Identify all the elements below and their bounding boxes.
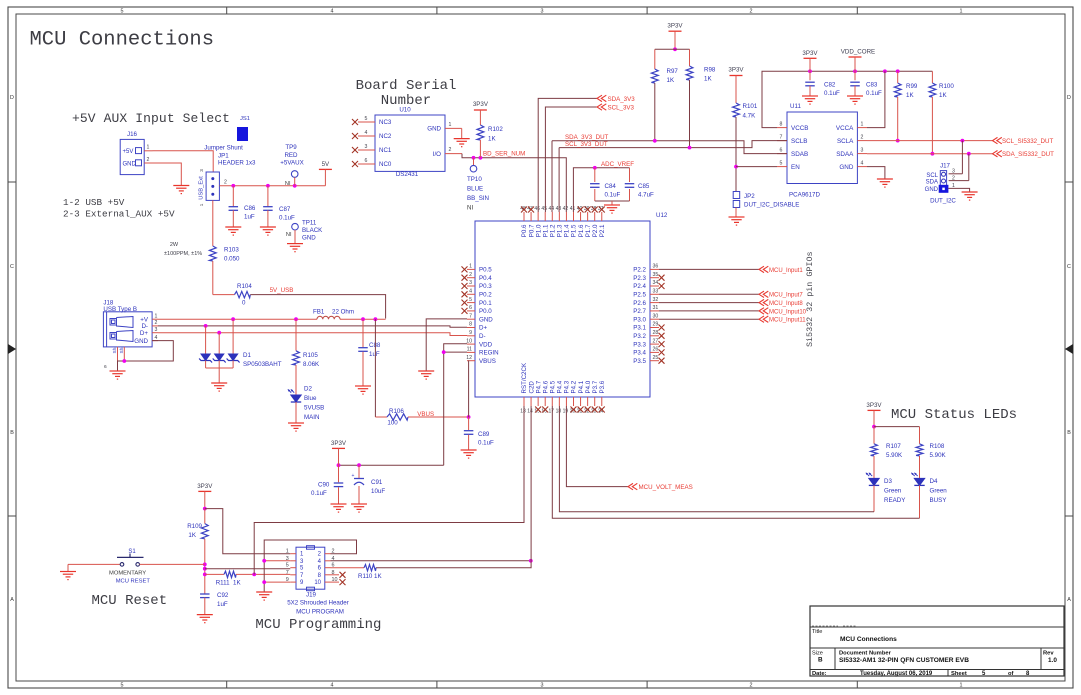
svg-text:100: 100 bbox=[387, 420, 398, 427]
svg-text:RED: RED bbox=[284, 152, 298, 159]
svg-text:P2.4: P2.4 bbox=[633, 283, 646, 290]
svg-text:Board Serial: Board Serial bbox=[356, 78, 457, 94]
svg-text:P0.2: P0.2 bbox=[479, 292, 492, 299]
svg-text:0.1uF: 0.1uF bbox=[824, 90, 840, 97]
svg-text:1uF: 1uF bbox=[217, 601, 228, 608]
svg-text:P4.7: P4.7 bbox=[535, 380, 542, 393]
svg-text:3: 3 bbox=[469, 280, 472, 286]
svg-text:SDAB: SDAB bbox=[791, 151, 808, 158]
svg-text:+5VAUX: +5VAUX bbox=[280, 160, 303, 167]
svg-text:1: 1 bbox=[199, 203, 204, 206]
svg-text:3: 3 bbox=[199, 169, 204, 172]
svg-text:3: 3 bbox=[861, 148, 864, 154]
svg-text:13: 13 bbox=[520, 409, 526, 415]
svg-text:1.0: 1.0 bbox=[1048, 657, 1057, 664]
svg-text:VDD_CORE: VDD_CORE bbox=[841, 49, 875, 56]
svg-text:C2D: C2D bbox=[528, 381, 535, 394]
svg-text:JS1: JS1 bbox=[240, 116, 250, 122]
svg-text:R100: R100 bbox=[939, 83, 954, 90]
svg-text:7: 7 bbox=[469, 313, 472, 319]
svg-text:C86: C86 bbox=[244, 205, 256, 212]
svg-text:SCLA: SCLA bbox=[837, 138, 854, 145]
svg-text:9: 9 bbox=[469, 330, 472, 336]
svg-text:5: 5 bbox=[469, 297, 472, 303]
svg-text:1: 1 bbox=[286, 549, 289, 555]
svg-text:32: 32 bbox=[653, 297, 659, 303]
svg-text:P1.0: P1.0 bbox=[535, 224, 542, 237]
svg-text:SCL_3V3: SCL_3V3 bbox=[608, 105, 635, 112]
svg-text:P1.1: P1.1 bbox=[542, 224, 549, 237]
svg-text:SCL_3V3_DUT: SCL_3V3_DUT bbox=[565, 141, 608, 148]
svg-text:4: 4 bbox=[365, 130, 368, 136]
svg-text:2: 2 bbox=[449, 147, 452, 153]
svg-text:0.1uF: 0.1uF bbox=[866, 90, 882, 97]
svg-text:BD_SER_NUM: BD_SER_NUM bbox=[483, 150, 525, 157]
svg-text:B: B bbox=[1067, 430, 1071, 436]
svg-text:Rev: Rev bbox=[1043, 651, 1054, 657]
svg-text:24: 24 bbox=[598, 409, 604, 415]
svg-text:Jumper Shunt: Jumper Shunt bbox=[204, 145, 243, 152]
svg-text:1K: 1K bbox=[906, 92, 914, 99]
svg-text:46: 46 bbox=[534, 206, 540, 212]
svg-text:1-2 USB +5V: 1-2 USB +5V bbox=[63, 197, 125, 208]
svg-text:Document Number: Document Number bbox=[839, 651, 892, 657]
svg-text:35: 35 bbox=[653, 272, 659, 278]
svg-text:Si5332 32 pin GPIOs: Si5332 32 pin GPIOs bbox=[805, 252, 815, 348]
svg-text:6: 6 bbox=[365, 158, 368, 164]
svg-text:TP9: TP9 bbox=[285, 144, 297, 151]
svg-text:J16: J16 bbox=[127, 131, 138, 138]
svg-text:R104: R104 bbox=[237, 283, 252, 290]
svg-text:FB1: FB1 bbox=[313, 309, 325, 316]
svg-text:3P3V: 3P3V bbox=[728, 67, 744, 74]
svg-text:Green: Green bbox=[930, 488, 948, 495]
svg-text:C83: C83 bbox=[866, 82, 878, 89]
svg-text:NI: NI bbox=[285, 181, 291, 187]
svg-text:NC2: NC2 bbox=[379, 133, 392, 140]
svg-text:MCU Connections: MCU Connections bbox=[840, 636, 897, 643]
svg-text:TP11: TP11 bbox=[302, 220, 317, 227]
svg-text:2W: 2W bbox=[170, 242, 179, 248]
svg-text:SCLB: SCLB bbox=[791, 138, 807, 145]
svg-text:3P3V: 3P3V bbox=[331, 440, 347, 447]
svg-text:1: 1 bbox=[960, 9, 963, 15]
svg-text:7: 7 bbox=[286, 570, 289, 576]
svg-text:5.90K: 5.90K bbox=[886, 452, 903, 459]
svg-text:42: 42 bbox=[563, 206, 569, 212]
svg-text:+5V AUX Input Select: +5V AUX Input Select bbox=[72, 111, 230, 126]
svg-text:C: C bbox=[10, 264, 14, 270]
svg-text:D2: D2 bbox=[304, 386, 312, 393]
svg-text:D1: D1 bbox=[243, 352, 251, 359]
svg-text:BUSY: BUSY bbox=[930, 497, 947, 504]
svg-text:45: 45 bbox=[541, 206, 547, 212]
svg-text:0.1uF: 0.1uF bbox=[279, 215, 295, 222]
svg-text:of: of bbox=[1008, 671, 1014, 677]
svg-text:VCCA: VCCA bbox=[836, 125, 854, 132]
svg-text:5: 5 bbox=[121, 682, 124, 688]
svg-text:P2.1: P2.1 bbox=[599, 224, 606, 237]
svg-text:USB Type B: USB Type B bbox=[103, 306, 137, 313]
svg-text:SP0503BAHT: SP0503BAHT bbox=[243, 361, 282, 368]
svg-text:4.7K: 4.7K bbox=[743, 113, 757, 120]
svg-text:ADC_VREF: ADC_VREF bbox=[601, 161, 634, 168]
svg-text:NI: NI bbox=[467, 205, 473, 212]
svg-text:Green: Green bbox=[884, 488, 902, 495]
svg-text:GND: GND bbox=[479, 316, 493, 323]
svg-text:0.1uF: 0.1uF bbox=[605, 192, 621, 199]
svg-text:3P3V: 3P3V bbox=[802, 50, 818, 57]
svg-text:3: 3 bbox=[365, 144, 368, 150]
svg-text:NC1: NC1 bbox=[379, 147, 392, 154]
svg-text:5: 5 bbox=[365, 116, 368, 122]
svg-text:P3.3: P3.3 bbox=[633, 341, 646, 348]
svg-text:P2.3: P2.3 bbox=[633, 275, 646, 282]
svg-text:0.050: 0.050 bbox=[224, 256, 240, 263]
svg-text:SI5332-AM1 32-PIN QFN CUSTOMER: SI5332-AM1 32-PIN QFN CUSTOMER EVB bbox=[839, 657, 969, 664]
svg-text:5V: 5V bbox=[322, 161, 330, 168]
svg-text:BLACK: BLACK bbox=[302, 227, 323, 234]
svg-text:+: + bbox=[352, 473, 355, 479]
svg-text:MCU_Input10: MCU_Input10 bbox=[769, 309, 807, 315]
svg-text:33: 33 bbox=[653, 289, 659, 295]
svg-text:23: 23 bbox=[591, 409, 597, 415]
svg-text:1uF: 1uF bbox=[244, 214, 255, 221]
svg-text:Sheet: Sheet bbox=[951, 671, 967, 677]
svg-text:2: 2 bbox=[750, 682, 753, 688]
svg-text:P3.4: P3.4 bbox=[633, 350, 646, 357]
svg-text:PCA9617D: PCA9617D bbox=[789, 192, 820, 199]
svg-text:SCL_SI5332_DUT: SCL_SI5332_DUT bbox=[1002, 138, 1053, 145]
svg-text:2-3 External_AUX +5V: 2-3 External_AUX +5V bbox=[63, 209, 175, 220]
svg-text:0.1uF: 0.1uF bbox=[478, 440, 494, 447]
svg-text:1K: 1K bbox=[667, 77, 675, 84]
svg-text:C85: C85 bbox=[638, 183, 650, 190]
svg-text:MCU Status LEDs: MCU Status LEDs bbox=[891, 407, 1017, 423]
svg-text:1: 1 bbox=[960, 682, 963, 688]
svg-text:P2.6: P2.6 bbox=[633, 300, 646, 307]
svg-text:R106: R106 bbox=[389, 408, 404, 415]
svg-text:5: 5 bbox=[286, 563, 289, 569]
svg-text:P0.1: P0.1 bbox=[479, 300, 492, 307]
svg-text:P1.6: P1.6 bbox=[578, 224, 585, 237]
svg-text:18: 18 bbox=[556, 409, 562, 415]
svg-text:1K: 1K bbox=[704, 76, 712, 83]
svg-text:GND: GND bbox=[427, 126, 441, 133]
svg-text:P0.5: P0.5 bbox=[479, 267, 492, 274]
svg-text:VCCB: VCCB bbox=[791, 125, 809, 132]
svg-text:2: 2 bbox=[224, 180, 227, 186]
svg-text:6: 6 bbox=[469, 305, 472, 311]
svg-text:VBUS: VBUS bbox=[479, 358, 496, 365]
svg-text:2: 2 bbox=[750, 9, 753, 15]
svg-text:MOMENTARY: MOMENTARY bbox=[109, 570, 146, 576]
svg-text:R99: R99 bbox=[906, 83, 918, 90]
svg-text:R105: R105 bbox=[303, 352, 318, 359]
svg-text:30: 30 bbox=[653, 313, 659, 319]
svg-text:R111: R111 bbox=[216, 580, 230, 587]
svg-text:8: 8 bbox=[780, 122, 783, 128]
svg-text:P3.1: P3.1 bbox=[633, 325, 646, 332]
svg-text:BLUE: BLUE bbox=[467, 186, 483, 193]
svg-text:R97: R97 bbox=[667, 68, 679, 75]
svg-text:A: A bbox=[10, 597, 14, 603]
svg-text:R110 1K: R110 1K bbox=[358, 573, 382, 580]
svg-text:C91: C91 bbox=[371, 479, 383, 486]
svg-text:U12: U12 bbox=[656, 212, 668, 219]
svg-text:10uF: 10uF bbox=[371, 488, 385, 495]
svg-text:RST/C2CK: RST/C2CK bbox=[521, 362, 528, 393]
svg-text:5: 5 bbox=[121, 9, 124, 15]
svg-text:DUT_I2C_DISABLE: DUT_I2C_DISABLE bbox=[744, 202, 799, 209]
svg-text:41: 41 bbox=[570, 206, 576, 212]
svg-text:C84: C84 bbox=[605, 183, 617, 190]
svg-text:P3.5: P3.5 bbox=[633, 358, 646, 365]
svg-text:Sh: Sh bbox=[119, 347, 125, 353]
svg-text:5: 5 bbox=[780, 161, 783, 167]
svg-text:D+: D+ bbox=[140, 330, 148, 337]
svg-text:S1: S1 bbox=[128, 549, 136, 555]
svg-text:C89: C89 bbox=[478, 431, 490, 438]
svg-text:P4.6: P4.6 bbox=[542, 380, 549, 393]
svg-text:20: 20 bbox=[570, 409, 576, 415]
svg-text:REGIN: REGIN bbox=[479, 350, 499, 357]
svg-text:A: A bbox=[1067, 597, 1071, 603]
svg-text:1uF: 1uF bbox=[369, 351, 380, 358]
svg-text:SDAA: SDAA bbox=[836, 151, 854, 158]
svg-text:21: 21 bbox=[577, 409, 583, 415]
svg-text:R109: R109 bbox=[187, 523, 202, 530]
svg-text:READY: READY bbox=[884, 497, 905, 504]
svg-text:USB_Ext: USB_Ext bbox=[199, 176, 205, 200]
svg-text:4: 4 bbox=[155, 335, 158, 341]
svg-text:TP10: TP10 bbox=[467, 176, 482, 183]
svg-text:3: 3 bbox=[952, 169, 955, 175]
svg-text:NC0: NC0 bbox=[379, 161, 392, 168]
svg-text:D: D bbox=[10, 95, 14, 101]
svg-text:3: 3 bbox=[541, 682, 544, 688]
svg-text:2: 2 bbox=[861, 135, 864, 141]
svg-text:P0.7: P0.7 bbox=[528, 224, 535, 237]
svg-text:1K: 1K bbox=[233, 580, 241, 587]
svg-text:15: 15 bbox=[534, 409, 540, 415]
svg-text:11: 11 bbox=[467, 347, 472, 353]
svg-text:MCU Reset: MCU Reset bbox=[92, 593, 168, 609]
svg-text:4: 4 bbox=[331, 682, 334, 688]
svg-text:17: 17 bbox=[548, 409, 554, 415]
svg-text:JP1: JP1 bbox=[218, 153, 229, 160]
svg-text:MCU_Input8: MCU_Input8 bbox=[769, 301, 803, 307]
svg-text:NI: NI bbox=[286, 232, 292, 238]
svg-text:P2.2: P2.2 bbox=[633, 267, 646, 274]
svg-text:P4.0: P4.0 bbox=[585, 380, 592, 393]
svg-text:.: . bbox=[966, 657, 968, 664]
svg-text:P2.7: P2.7 bbox=[633, 308, 646, 315]
svg-text:5V_USB: 5V_USB bbox=[270, 287, 294, 294]
svg-text:31: 31 bbox=[653, 305, 659, 311]
svg-text:P0.0: P0.0 bbox=[479, 308, 492, 315]
svg-text:R107: R107 bbox=[886, 443, 901, 450]
svg-text:C87: C87 bbox=[279, 206, 291, 213]
svg-text:14: 14 bbox=[527, 409, 533, 415]
svg-text:4: 4 bbox=[469, 289, 472, 295]
svg-text:5.90K: 5.90K bbox=[930, 452, 947, 459]
svg-text:6: 6 bbox=[780, 148, 783, 154]
svg-text:MCU Programming: MCU Programming bbox=[255, 617, 381, 633]
svg-text:19: 19 bbox=[563, 409, 569, 415]
svg-text:BB_SIN: BB_SIN bbox=[467, 195, 489, 202]
svg-text:22 Ohm: 22 Ohm bbox=[332, 309, 354, 316]
svg-text:5X2 Shrouded Header: 5X2 Shrouded Header bbox=[287, 600, 349, 607]
svg-text:C92: C92 bbox=[217, 592, 229, 599]
svg-text:2: 2 bbox=[469, 272, 472, 278]
svg-text:HEADER 1x3: HEADER 1x3 bbox=[218, 160, 256, 167]
svg-text:6: 6 bbox=[104, 364, 107, 370]
svg-text:D3: D3 bbox=[884, 478, 892, 485]
svg-text:7: 7 bbox=[780, 135, 783, 141]
svg-text:GND: GND bbox=[302, 235, 316, 242]
svg-text:3P3V: 3P3V bbox=[667, 23, 683, 30]
svg-text:Sh: Sh bbox=[112, 347, 118, 353]
svg-text:R103: R103 bbox=[224, 247, 239, 254]
svg-text:12: 12 bbox=[466, 355, 472, 361]
svg-text:EN: EN bbox=[791, 164, 800, 171]
svg-text:R108: R108 bbox=[930, 443, 945, 450]
svg-text:P3.0: P3.0 bbox=[633, 316, 646, 323]
svg-text:P1.5: P1.5 bbox=[571, 224, 578, 237]
svg-text:DS2431: DS2431 bbox=[396, 171, 419, 178]
svg-text:10: 10 bbox=[466, 338, 472, 344]
svg-text:R102: R102 bbox=[488, 126, 503, 133]
svg-text:MCU RESET: MCU RESET bbox=[116, 578, 151, 584]
svg-text:P4.2: P4.2 bbox=[571, 380, 578, 393]
svg-text:1K: 1K bbox=[488, 136, 496, 143]
svg-text:P3.7: P3.7 bbox=[592, 380, 599, 393]
svg-text:P1.4: P1.4 bbox=[564, 224, 571, 237]
svg-text:44: 44 bbox=[548, 206, 554, 212]
svg-text:SDA: SDA bbox=[926, 180, 938, 186]
svg-text:MCU_Input7: MCU_Input7 bbox=[769, 293, 803, 299]
svg-text:U11: U11 bbox=[790, 103, 801, 110]
svg-text:Blue: Blue bbox=[304, 395, 317, 402]
svg-text:P0.4: P0.4 bbox=[479, 275, 492, 282]
svg-text:C82: C82 bbox=[824, 82, 836, 89]
svg-text:26: 26 bbox=[653, 347, 659, 353]
svg-text:P1.7: P1.7 bbox=[585, 224, 592, 237]
svg-text:2: 2 bbox=[147, 157, 150, 163]
svg-text:D: D bbox=[1067, 95, 1071, 101]
svg-text:MCU_Input11: MCU_Input11 bbox=[769, 318, 806, 324]
svg-text:1: 1 bbox=[155, 313, 158, 319]
svg-text:8: 8 bbox=[469, 322, 472, 328]
svg-text:P4.1: P4.1 bbox=[578, 380, 585, 393]
svg-text:MAIN: MAIN bbox=[304, 414, 319, 421]
svg-text:25: 25 bbox=[653, 355, 659, 361]
svg-text:GND: GND bbox=[839, 164, 853, 171]
svg-text:Tuesday, August 06, 2019: Tuesday, August 06, 2019 bbox=[860, 671, 933, 677]
svg-text:R101: R101 bbox=[743, 103, 758, 110]
svg-text:U10: U10 bbox=[399, 107, 411, 114]
svg-text:P4.5: P4.5 bbox=[549, 380, 556, 393]
svg-text:±100PPM, ±1%: ±100PPM, ±1% bbox=[164, 251, 202, 257]
svg-text:C90: C90 bbox=[318, 482, 330, 489]
svg-text:R98: R98 bbox=[704, 67, 716, 74]
svg-text:MCU_Input1: MCU_Input1 bbox=[769, 268, 803, 274]
svg-text:43: 43 bbox=[556, 206, 562, 212]
svg-text:4.7uF: 4.7uF bbox=[638, 192, 654, 199]
svg-text:3P3V: 3P3V bbox=[866, 402, 882, 409]
svg-text:1: 1 bbox=[861, 122, 864, 128]
svg-text:JP2: JP2 bbox=[744, 193, 755, 200]
svg-text:J17: J17 bbox=[940, 163, 951, 170]
svg-text:B: B bbox=[10, 430, 14, 436]
svg-text:3: 3 bbox=[541, 9, 544, 15]
svg-text:SCL: SCL bbox=[926, 173, 938, 179]
svg-text:1: 1 bbox=[449, 122, 452, 128]
svg-text:D+: D+ bbox=[479, 325, 487, 332]
svg-text:8.06K: 8.06K bbox=[303, 361, 320, 368]
svg-text:GND: GND bbox=[925, 187, 939, 193]
svg-text:MCU PROGRAM: MCU PROGRAM bbox=[296, 609, 344, 616]
svg-text:MCU_VOLT_MEAS: MCU_VOLT_MEAS bbox=[639, 484, 693, 491]
svg-text:J19: J19 bbox=[306, 592, 317, 599]
svg-text:22: 22 bbox=[584, 409, 590, 415]
svg-text:Title: Title bbox=[812, 629, 822, 635]
svg-text:2: 2 bbox=[155, 320, 158, 326]
svg-text:+5V: +5V bbox=[123, 149, 134, 155]
svg-text:P0.6: P0.6 bbox=[521, 224, 528, 237]
svg-text:5VUSB: 5VUSB bbox=[304, 405, 324, 412]
svg-text:DUT_I2C: DUT_I2C bbox=[930, 198, 956, 205]
svg-text:34: 34 bbox=[653, 280, 659, 286]
svg-text:0.1uF: 0.1uF bbox=[311, 490, 327, 497]
svg-text:P3.2: P3.2 bbox=[633, 333, 646, 340]
svg-text:NC3: NC3 bbox=[379, 119, 392, 126]
svg-text:B: B bbox=[818, 657, 823, 664]
svg-text:4: 4 bbox=[861, 161, 864, 167]
svg-text:29: 29 bbox=[653, 322, 659, 328]
svg-text:C: C bbox=[1067, 264, 1071, 270]
svg-text:P4.4: P4.4 bbox=[557, 380, 564, 393]
svg-text:D-: D- bbox=[479, 333, 486, 340]
svg-text:1K: 1K bbox=[939, 92, 947, 99]
svg-text:P2.5: P2.5 bbox=[633, 292, 646, 299]
svg-text:VDD: VDD bbox=[479, 341, 493, 348]
svg-text:4: 4 bbox=[331, 9, 334, 15]
svg-text:10: 10 bbox=[314, 580, 321, 586]
svg-text:MCU Connections: MCU Connections bbox=[30, 29, 215, 52]
svg-text:1: 1 bbox=[469, 264, 472, 270]
svg-text:SDA_SI5332_DUT: SDA_SI5332_DUT bbox=[1002, 151, 1054, 158]
svg-text:P0.3: P0.3 bbox=[479, 283, 492, 290]
svg-text:27: 27 bbox=[653, 338, 659, 344]
svg-text:36: 36 bbox=[653, 264, 659, 270]
svg-text:3P3V: 3P3V bbox=[473, 101, 489, 108]
svg-text:16: 16 bbox=[541, 409, 547, 415]
svg-text:Date:: Date: bbox=[812, 671, 827, 677]
svg-text:1: 1 bbox=[147, 145, 150, 151]
svg-text:2: 2 bbox=[952, 176, 955, 182]
svg-text:SDA_3V3_DUT: SDA_3V3_DUT bbox=[565, 134, 609, 141]
svg-text:28: 28 bbox=[653, 330, 659, 336]
svg-text:D4: D4 bbox=[930, 478, 938, 485]
svg-text:P3.6: P3.6 bbox=[599, 380, 606, 393]
svg-text:P2.0: P2.0 bbox=[592, 224, 599, 237]
svg-text:3: 3 bbox=[155, 327, 158, 333]
svg-text:0: 0 bbox=[242, 300, 246, 307]
svg-text:P4.3: P4.3 bbox=[564, 380, 571, 393]
svg-text:I/O: I/O bbox=[433, 151, 441, 158]
